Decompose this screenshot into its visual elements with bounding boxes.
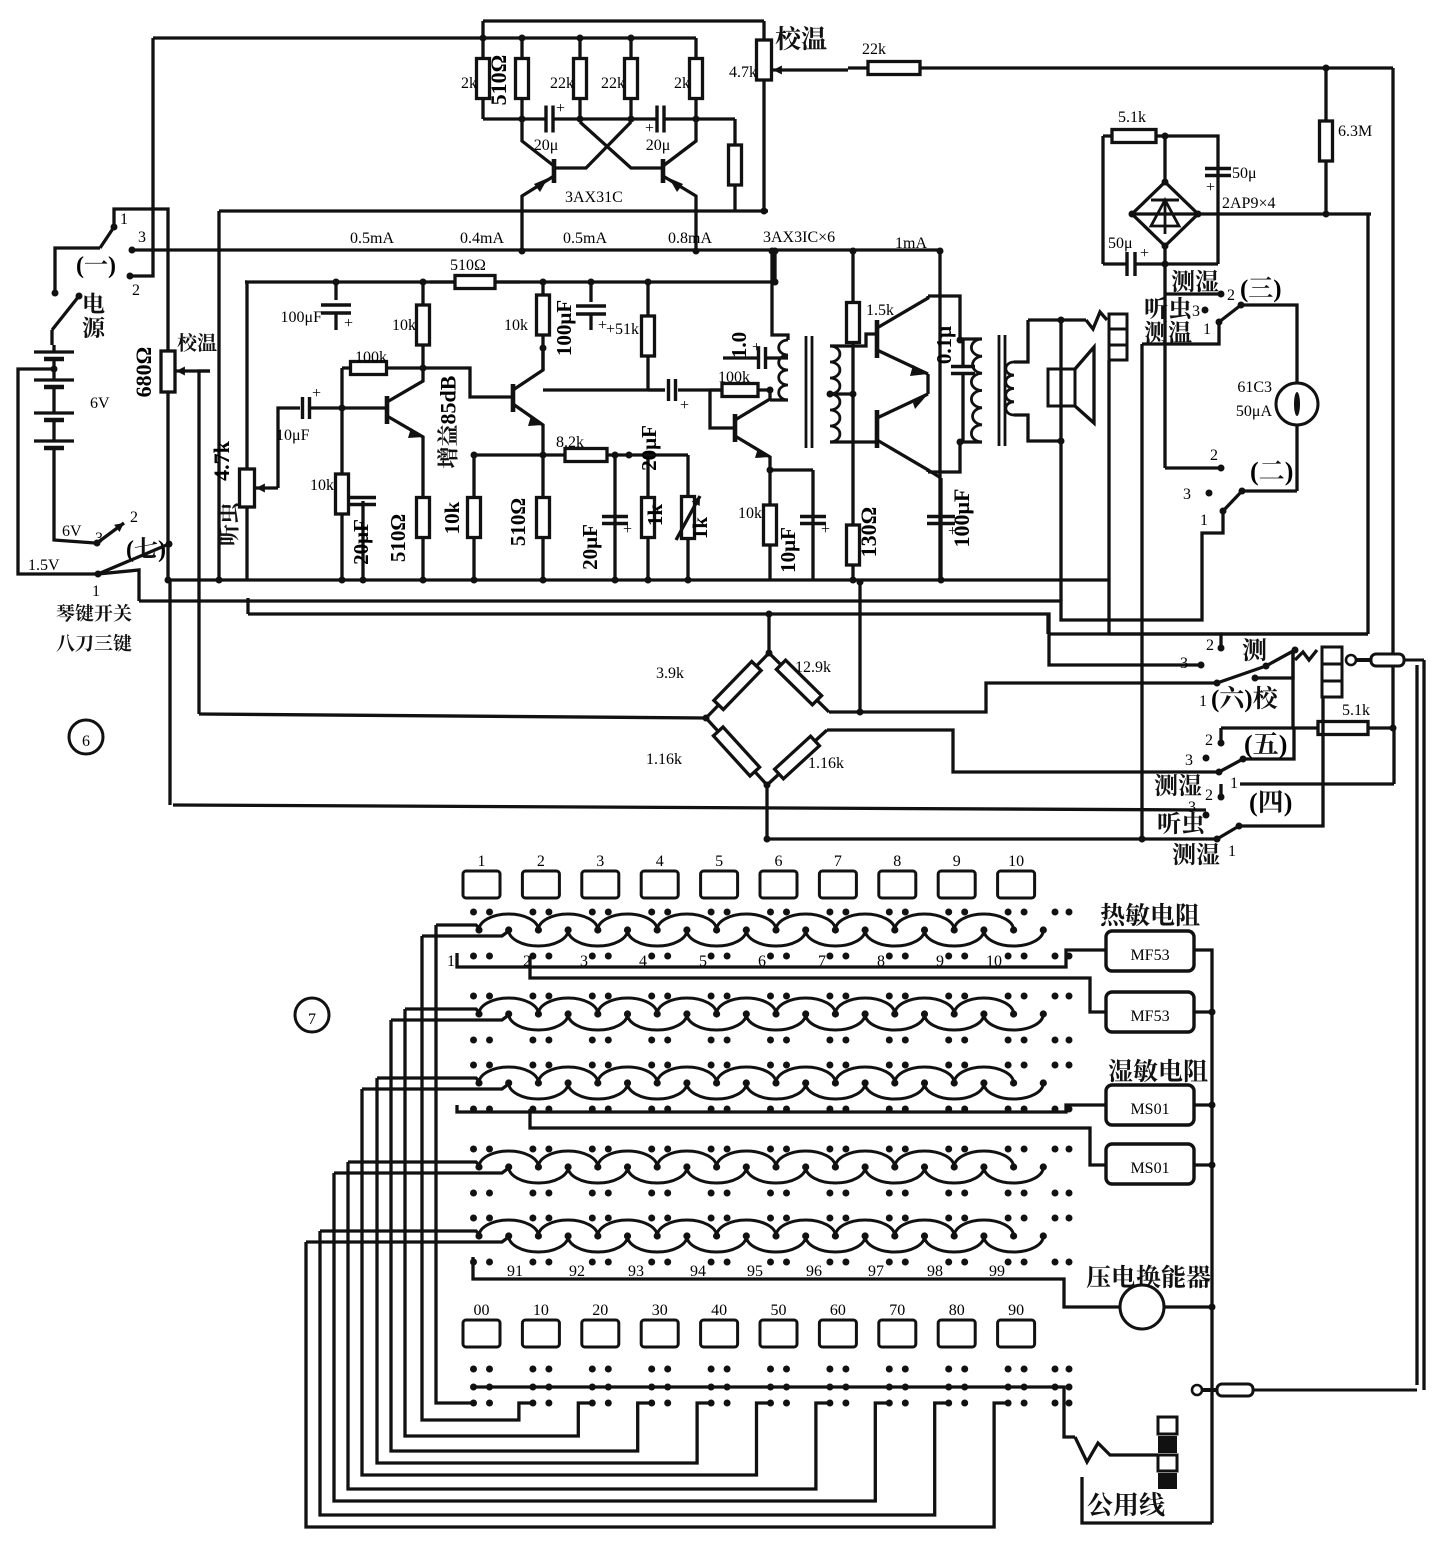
- switch (四) contact 2: [1205, 787, 1225, 804]
- svg-text:60: 60: [830, 1302, 846, 1319]
- transistor Q4 stage2: [513, 348, 543, 455]
- resistor 5.1k bridge: [1103, 109, 1165, 143]
- label 压电换能器: [1087, 1264, 1211, 1288]
- wire rail614 left: [246, 598, 249, 614]
- wire braid entry a: [436, 925, 481, 930]
- wire rail 713: [199, 714, 706, 718]
- key button 3: [582, 853, 619, 898]
- label contact 8: [877, 953, 885, 970]
- svg-text:2: 2: [537, 853, 545, 870]
- svg-text:0.8mA: 0.8mA: [668, 230, 712, 247]
- switch (二) contact 3: [1183, 486, 1213, 503]
- jack J2: [1322, 647, 1342, 697]
- key button 30 bottom: [641, 1302, 678, 1347]
- transformer T2 core: [999, 335, 1005, 446]
- label 測: [1243, 638, 1267, 661]
- resistor 100k stage3: [710, 369, 770, 397]
- node: [767, 467, 774, 474]
- braid row 2: [475, 998, 1047, 1030]
- wire 0.8mA drop: [773, 251, 776, 282]
- wire 0.1 cap: [961, 340, 964, 442]
- jack J3 bottom: [1158, 1417, 1177, 1489]
- svg-text:+: +: [623, 521, 632, 538]
- label contact 93: [628, 1263, 644, 1280]
- capacitor 20μF stage2: [578, 455, 632, 580]
- wire row5 to piezo: [473, 1257, 1120, 1307]
- switch (七) contact 1: [92, 571, 102, 601]
- svg-text:): ): [158, 537, 166, 563]
- label 公用线: [1088, 1492, 1165, 1516]
- wire: [648, 388, 665, 391]
- wire row3 to MS01-1: [457, 1105, 1106, 1112]
- wiper arrow 4.7k-2: [256, 484, 278, 493]
- key button 50 bottom: [760, 1302, 797, 1347]
- wire 听虫 rail 810: [173, 805, 1206, 810]
- svg-text:10: 10: [1008, 853, 1024, 870]
- check mark: [1295, 650, 1317, 660]
- svg-text:+: +: [344, 315, 353, 332]
- transformer T1 secondary: [830, 334, 877, 442]
- node: [850, 248, 857, 255]
- svg-text:20μF: 20μF: [637, 425, 661, 471]
- wire braid entry b: [334, 1167, 510, 1173]
- label contact 98: [927, 1263, 943, 1280]
- key button 00 bottom: [463, 1302, 500, 1347]
- wire matrix bus x348: [348, 1162, 830, 1489]
- node: [938, 577, 945, 584]
- label contact 94: [690, 1263, 706, 1280]
- node: [1323, 65, 1330, 72]
- transistor Q3 stage1: [387, 368, 423, 455]
- humidity MS01 no2: [1106, 1144, 1194, 1184]
- contact dots above row 2: [470, 993, 1073, 1000]
- wire pole down to power sw: [55, 248, 100, 293]
- svg-text:8: 8: [893, 853, 901, 870]
- transformer T1 primary: [770, 251, 788, 400]
- svg-text:50μ: 50μ: [1232, 165, 1257, 182]
- wheatstone top node: [766, 650, 773, 657]
- svg-text:5: 5: [715, 853, 723, 870]
- svg-text:20: 20: [592, 1302, 608, 1319]
- wire x1142 down: [1140, 344, 1143, 839]
- svg-text:3: 3: [1180, 655, 1188, 672]
- wire rail 580: [168, 578, 1108, 581]
- wire rail601 left up: [98, 570, 139, 601]
- wire bottom multivib y211: [219, 209, 768, 212]
- resistor 510Ω stage1 emitter: [386, 455, 430, 580]
- wire matrix bus x422: [422, 936, 533, 1420]
- svg-text:1: 1: [1199, 693, 1207, 710]
- wire emitters to rail: [519, 211, 700, 255]
- label ⑦: [295, 998, 329, 1032]
- capacitor 20μF coupling: [637, 379, 689, 471]
- contact dots bottom r1: [470, 1366, 1073, 1373]
- wire jack down: [1107, 360, 1110, 580]
- svg-text:+: +: [821, 521, 830, 538]
- svg-text:1: 1: [120, 211, 128, 228]
- node: [519, 35, 635, 42]
- switch (三) arm: [1219, 302, 1245, 323]
- svg-text:6V: 6V: [90, 395, 110, 412]
- svg-text:510Ω: 510Ω: [506, 498, 530, 546]
- node: [767, 387, 774, 394]
- capacitor 20μF stage1: [349, 498, 376, 581]
- transistor Q6 upper: [877, 296, 928, 376]
- switch (七) pole: [166, 541, 173, 548]
- resistor 680Ω pot: [131, 347, 175, 398]
- resistor 1.16k a: [646, 718, 767, 785]
- capacitor 10μF st3: [770, 470, 830, 580]
- svg-text:10: 10: [533, 1302, 549, 1319]
- wiper arrow 680: [176, 367, 210, 376]
- wire (六)2 throw right: [1221, 632, 1368, 635]
- label ⑥: [69, 720, 103, 754]
- wire contact1 loop: [114, 209, 168, 351]
- node: [827, 391, 834, 398]
- svg-text:10k: 10k: [738, 505, 762, 522]
- svg-text:0.5mA: 0.5mA: [350, 230, 394, 247]
- switch (四) contact 3: [1188, 799, 1210, 819]
- svg-text:1.16k: 1.16k: [808, 755, 844, 772]
- wire y784: [1240, 728, 1394, 784]
- switch (二) contact 2: [1210, 447, 1225, 472]
- wire wiper to cap: [278, 408, 300, 488]
- svg-text:1.16k: 1.16k: [646, 751, 682, 768]
- label contact 3: [580, 953, 588, 970]
- resistor 10k stage3 em: [738, 470, 777, 580]
- node: [339, 405, 346, 412]
- wire row1 to MF53-1: [457, 950, 1106, 967]
- svg-text:40: 40: [711, 1302, 727, 1319]
- svg-text:7: 7: [834, 853, 842, 870]
- capacitor 20μ: [534, 100, 565, 154]
- svg-text:4: 4: [656, 853, 664, 870]
- svg-text:9: 9: [953, 853, 961, 870]
- switch (一) contact 3: [129, 229, 147, 254]
- svg-text:MF53: MF53: [1130, 1008, 1169, 1025]
- node: [764, 836, 1146, 843]
- battery 6V: [34, 345, 110, 448]
- node: [471, 452, 478, 459]
- resistor 2k: [674, 38, 703, 119]
- capacitor 50μ bottom: [1108, 235, 1149, 276]
- switch (四) arm: [1217, 823, 1243, 840]
- wire braid entry a: [377, 1078, 481, 1083]
- node: [471, 577, 692, 584]
- key button 5: [701, 853, 738, 898]
- svg-text:2: 2: [1205, 732, 1213, 749]
- svg-text:130Ω: 130Ω: [856, 507, 881, 558]
- wiper arrow 4.7k: [773, 66, 848, 75]
- svg-text:+: +: [1140, 245, 1149, 262]
- braid row 1: [475, 914, 1047, 946]
- transistor Q5 stage3: [735, 390, 770, 470]
- svg-text:6: 6: [82, 733, 90, 750]
- wire rail 251: [132, 248, 940, 251]
- contact dots below row 4: [470, 1190, 1073, 1197]
- node: [857, 579, 864, 586]
- svg-text:80: 80: [949, 1302, 965, 1319]
- contact dots below row 2: [470, 1037, 1073, 1044]
- svg-text:1k: 1k: [688, 517, 712, 540]
- node: [957, 337, 964, 446]
- wire rail580 up right: [1107, 580, 1110, 634]
- node: [703, 715, 771, 789]
- node battery tap: [51, 366, 58, 373]
- wire wiper down: [199, 371, 210, 714]
- wire (三) throw to meter: [1241, 305, 1297, 383]
- node: [540, 452, 633, 459]
- resistor 5.1k lower: [1293, 702, 1393, 735]
- svg-text:12.9k: 12.9k: [795, 659, 831, 676]
- wire bottom common row: [473, 1387, 1075, 1437]
- svg-text:6.3M: 6.3M: [1338, 123, 1372, 140]
- wire (四)2: [1219, 784, 1222, 797]
- svg-text:2AP9×4: 2AP9×4: [1222, 195, 1275, 212]
- wire bridge top up: [766, 611, 773, 654]
- label contact 5: [699, 953, 707, 970]
- svg-text:+: +: [948, 523, 957, 540]
- resistor 510Ω stage2: [506, 455, 550, 580]
- label contact 99: [989, 1263, 1005, 1280]
- label 0.8mA: [668, 230, 712, 247]
- switch (二) arm: [1223, 488, 1246, 512]
- wire cross-coupling left: [483, 117, 735, 120]
- svg-text:(: (: [1240, 276, 1248, 303]
- wire MF53-1 out: [1194, 950, 1212, 1523]
- svg-text:1: 1: [478, 853, 486, 870]
- node: [612, 452, 619, 459]
- wire right node to (六)1: [829, 683, 1217, 712]
- resistor 100k stage1: [342, 349, 395, 408]
- wire (六) mid stub: [1252, 650, 1294, 682]
- switch (五) contact 1: [1216, 769, 1239, 793]
- switch (六) contact 3: [1180, 655, 1205, 672]
- resistor 510Ω h1: [430, 257, 520, 289]
- wire row3b to MS01-2: [530, 1109, 1106, 1165]
- wire twin lead right: [1417, 660, 1424, 1390]
- svg-text:100μF: 100μF: [281, 309, 323, 326]
- switch contact 3->2 arm: [94, 509, 139, 547]
- resistor 22k: [601, 38, 638, 119]
- wire 1.16k to (五)1: [827, 730, 1219, 772]
- wire x860 down: [858, 582, 861, 712]
- wire Q6 col: [928, 296, 960, 340]
- switch (六) contact 2: [1206, 637, 1225, 654]
- wire MS01-1 out: [1194, 1102, 1216, 1109]
- resistor 22k: [550, 38, 587, 119]
- wire x1293 down: [1291, 650, 1294, 728]
- switch 电源: [52, 290, 105, 339]
- svg-text:1: 1: [447, 953, 455, 970]
- wire braid entry b: [422, 930, 510, 936]
- wire braid entry a: [348, 1162, 481, 1167]
- wire row1b to MF53-2: [530, 956, 1106, 1012]
- thermistor MF53 no2: [1106, 992, 1194, 1032]
- wire collector node: [541, 348, 544, 370]
- svg-text:1.5V: 1.5V: [28, 557, 60, 574]
- svg-text:50μ: 50μ: [1108, 235, 1133, 252]
- wire stage1->stage2 base: [423, 368, 513, 397]
- label 1.5V: [28, 557, 60, 574]
- label 測湿 four: [1173, 843, 1220, 865]
- wire coupling: [543, 388, 665, 391]
- contact dots bottom r2: [470, 1384, 1073, 1391]
- node: [772, 248, 779, 286]
- svg-text:7: 7: [308, 1011, 316, 1028]
- wire MS01-2 out: [1194, 1162, 1216, 1169]
- svg-text:+: +: [645, 120, 654, 137]
- wire matrix bus x377: [377, 1078, 711, 1463]
- svg-text:(: (: [76, 253, 84, 279]
- key button 1: [463, 853, 500, 898]
- svg-text:1: 1: [92, 583, 100, 600]
- node: [165, 577, 223, 584]
- svg-text:(: (: [1211, 686, 1219, 713]
- node: [339, 577, 427, 584]
- label 琴键开关: [56, 604, 131, 622]
- svg-text:680Ω: 680Ω: [131, 347, 156, 398]
- label contact 6: [758, 953, 766, 970]
- key button 8: [879, 853, 916, 898]
- svg-text:20μF: 20μF: [349, 519, 373, 565]
- node: [645, 452, 652, 459]
- svg-text:3: 3: [1185, 752, 1193, 769]
- svg-text:2: 2: [1227, 287, 1235, 304]
- svg-text:3: 3: [1192, 303, 1200, 320]
- svg-text:0.1μ: 0.1μ: [932, 326, 956, 364]
- label 0.5mA: [563, 230, 607, 247]
- contact dots below row 1: [470, 953, 1073, 960]
- wire emitters join: [926, 374, 929, 394]
- svg-text:10μF: 10μF: [776, 527, 800, 573]
- wire rail 282: [245, 280, 775, 283]
- wire matrix bus x362: [362, 1089, 771, 1475]
- wire 5.1k to bridge top: [1162, 133, 1169, 183]
- svg-text:+: +: [312, 385, 321, 402]
- contact dots above row 4: [470, 1146, 1073, 1153]
- wire rail y38: [153, 36, 696, 39]
- svg-text:22k: 22k: [862, 41, 886, 58]
- wire rail282 into pot: [245, 280, 247, 283]
- switch (五) contact 2: [1205, 732, 1225, 749]
- wire y68 long: [940, 66, 1393, 69]
- svg-text:1: 1: [1200, 512, 1208, 529]
- switch (五) contact 3: [1185, 752, 1210, 769]
- label 八刀三键: [57, 634, 132, 652]
- svg-text:70: 70: [889, 1302, 905, 1319]
- capacitor 50μ right: [1205, 165, 1257, 196]
- wire rail 614: [248, 614, 1201, 665]
- label contact 96: [806, 1263, 822, 1280]
- contact dots bottom r3: [470, 1400, 1073, 1407]
- svg-text:3: 3: [596, 853, 604, 870]
- svg-text:1: 1: [1203, 321, 1211, 338]
- wire top rail y21: [483, 19, 764, 22]
- svg-text:22k: 22k: [550, 75, 574, 92]
- svg-text:510Ω: 510Ω: [486, 55, 511, 106]
- transformer T2 secondary: [1006, 362, 1014, 415]
- svg-text:+: +: [1206, 179, 1215, 196]
- svg-text:20μ: 20μ: [646, 137, 671, 154]
- switch (一) contact 1: [111, 211, 129, 231]
- wire: [217, 211, 220, 580]
- node: [850, 391, 857, 398]
- svg-text:MS01: MS01: [1130, 1101, 1169, 1118]
- wire 50u bottom: [1103, 262, 1218, 265]
- resistor 22k top: [848, 41, 940, 75]
- node: [769, 248, 776, 255]
- wire matrix bus x405: [405, 1009, 592, 1436]
- node: [761, 208, 768, 215]
- wire 680 down to 805: [168, 580, 171, 805]
- braid row 5: [475, 1220, 1047, 1252]
- svg-text:8.2k: 8.2k: [556, 434, 584, 451]
- key button 20 bottom: [582, 1302, 619, 1347]
- label 校温: [775, 26, 826, 50]
- resistor 10k stage2 em: [440, 455, 543, 580]
- label 2AP9×4: [1222, 195, 1275, 212]
- svg-text:MF53: MF53: [1130, 947, 1169, 964]
- key button 80 bottom: [938, 1302, 975, 1347]
- diode bridge 2AP9x4: [1132, 182, 1198, 246]
- svg-text:1.0: 1.0: [727, 332, 751, 358]
- label 3AX31C: [565, 189, 623, 206]
- resistor 2k: [461, 38, 490, 119]
- svg-text:4.7k: 4.7k: [729, 64, 757, 81]
- svg-text:10k: 10k: [392, 317, 416, 334]
- wire MF53-2 out: [1194, 1009, 1216, 1016]
- wire bottom node to (四): [767, 785, 1217, 839]
- wire pot down: [762, 99, 765, 211]
- transistor Q7 lower: [877, 394, 928, 472]
- key button 4: [641, 853, 678, 898]
- switch (三) 測湿 2: [1172, 270, 1282, 304]
- label (七): [126, 537, 166, 563]
- wire matrix bus x436: [436, 925, 474, 1403]
- label (二): [1250, 457, 1293, 486]
- piezo transducer: [1120, 1285, 1164, 1329]
- resistor 12.9k: [769, 653, 831, 712]
- svg-text:): ): [1284, 788, 1293, 817]
- wire (二) throw: [1242, 489, 1297, 492]
- key button 10: [998, 853, 1035, 898]
- contact dots below row 3: [470, 1106, 1073, 1113]
- jack J1: [1086, 312, 1127, 360]
- meter 61C3 50μA: [1236, 379, 1318, 425]
- svg-text:2k: 2k: [674, 75, 690, 92]
- switch (一) contact 2: [127, 273, 141, 300]
- switch (七) arm: [98, 544, 169, 574]
- svg-text:2: 2: [130, 509, 138, 526]
- switch (五) arm: [1219, 756, 1247, 773]
- wire (五) throw: [1243, 728, 1294, 759]
- wire to contact (三)2: [1165, 292, 1218, 295]
- key button 6: [760, 853, 797, 898]
- label 1mA: [895, 235, 927, 252]
- svg-text:): ): [1273, 276, 1281, 303]
- wire 680 bottom: [166, 392, 169, 580]
- svg-text:MS01: MS01: [1130, 1160, 1169, 1177]
- wire cross 1: [554, 122, 631, 168]
- wire base st3: [710, 390, 735, 428]
- svg-text:3.9k: 3.9k: [656, 665, 684, 682]
- svg-text:2: 2: [132, 282, 140, 299]
- svg-text:): ): [1285, 457, 1294, 486]
- wire braid entry b: [391, 1014, 510, 1020]
- key button 10 bottom: [522, 1302, 559, 1347]
- wire T1 sec center: [830, 392, 853, 395]
